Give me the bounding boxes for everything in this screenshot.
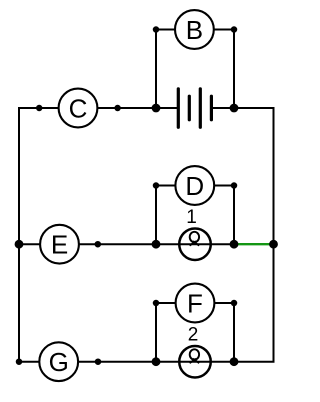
- battery: [178, 89, 211, 128]
- svg-text:E: E: [51, 230, 68, 260]
- meter C: [59, 89, 98, 128]
- svg-text:G: G: [49, 347, 69, 377]
- svg-text:B: B: [186, 15, 203, 45]
- wire: left edge with top-left and bottom-left corners: [19, 108, 59, 362]
- junction lamp-2 left: [152, 357, 161, 366]
- wire: F right lead: [214, 302, 234, 304]
- wire: D loop left vertical: [155, 186, 157, 245]
- pin dot G left (bottom-left corner): [16, 358, 23, 365]
- wire: D loop right vertical: [233, 186, 235, 245]
- junction left edge / E row: [15, 240, 24, 249]
- junction lamp-1 left: [152, 240, 161, 249]
- pin dot B right: [231, 26, 238, 33]
- pin dot F right: [231, 300, 238, 307]
- pin dot B left: [153, 26, 160, 33]
- wire: through lamp 2: [156, 361, 234, 363]
- svg-text:F: F: [187, 289, 203, 319]
- junction right edge / E row: [269, 240, 278, 249]
- wire: C right to battery-left junction: [97, 107, 156, 109]
- wire: B loop right vertical: [233, 30, 235, 109]
- svg-text:1: 1: [186, 207, 197, 228]
- pin dot C right: [114, 105, 121, 112]
- junction lamp-2 right: [230, 357, 239, 366]
- pin dot E right: [95, 241, 102, 248]
- meter G: [39, 342, 78, 381]
- pin dot C left: [36, 105, 43, 112]
- wire: E left lead: [19, 243, 40, 245]
- wire: battery right lead: [213, 107, 234, 109]
- wire: F loop left vertical: [155, 303, 157, 362]
- wire: F left lead: [156, 302, 176, 304]
- meter E: [40, 225, 79, 264]
- wire: B loop left vertical: [155, 30, 157, 109]
- svg-text:C: C: [69, 94, 88, 124]
- wire: battery left lead: [156, 107, 177, 109]
- svg-text:2: 2: [188, 325, 199, 346]
- meter D: [175, 166, 214, 205]
- meter B: [175, 10, 214, 49]
- wire: E right to lamp-1 left junction: [79, 243, 156, 245]
- junction at battery left: [152, 104, 161, 113]
- wire: G right to lamp-2 left junction: [78, 361, 156, 363]
- wire: D left lead: [156, 185, 175, 187]
- lamp 1: [179, 228, 211, 260]
- pin dot G right: [95, 358, 102, 365]
- meter F: [176, 284, 215, 323]
- wire: green highlighted segment: [234, 243, 274, 245]
- svg-text:D: D: [185, 171, 204, 201]
- wire: through lamp 1: [156, 243, 234, 245]
- lamp 2: [179, 346, 211, 378]
- pin dot D left: [153, 182, 160, 189]
- wire: F loop right vertical: [233, 303, 235, 362]
- wire: D right lead: [214, 185, 234, 187]
- pin dot F left: [153, 300, 160, 307]
- wire: right edge with top-right and bottom-right corners: [234, 108, 274, 362]
- wire: B left lead: [156, 29, 175, 31]
- junction lamp-1 right: [230, 240, 239, 249]
- junction at battery right: [230, 104, 239, 113]
- wire: B right lead: [214, 29, 234, 31]
- pin dot D right: [231, 182, 238, 189]
